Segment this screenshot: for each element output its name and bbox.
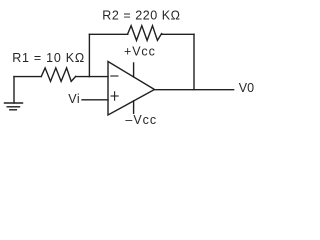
power pin +Vcc	[133, 63, 135, 77]
wire output	[155, 89, 234, 91]
svg-text:R1 = 10 KΩ: R1 = 10 KΩ	[12, 51, 85, 65]
wire feedback rail left	[89, 33, 127, 35]
svg-text:+Vcc: +Vcc	[124, 45, 156, 59]
svg-text:–Vcc: –Vcc	[125, 113, 157, 127]
ground	[5, 77, 23, 110]
wire feedback tap vertical	[88, 34, 90, 76]
svg-text:Vi: Vi	[68, 92, 80, 106]
resistor R2	[128, 26, 162, 41]
non-inverting input marker +	[111, 92, 118, 100]
wire R1 to op-amp inverting input	[76, 76, 108, 78]
svg-text:V0: V0	[239, 81, 254, 95]
svg-text:R2 = 220 KΩ: R2 = 220 KΩ	[102, 8, 180, 22]
wire feedback rail right	[162, 33, 194, 35]
wire Vi input	[82, 99, 108, 101]
power pin -Vcc	[133, 101, 135, 114]
wire feedback right vertical	[193, 34, 195, 89]
wire ground to R1	[14, 76, 41, 78]
resistor R1	[41, 68, 75, 82]
inverting input marker -	[111, 75, 118, 77]
op-amp U1	[108, 62, 155, 116]
